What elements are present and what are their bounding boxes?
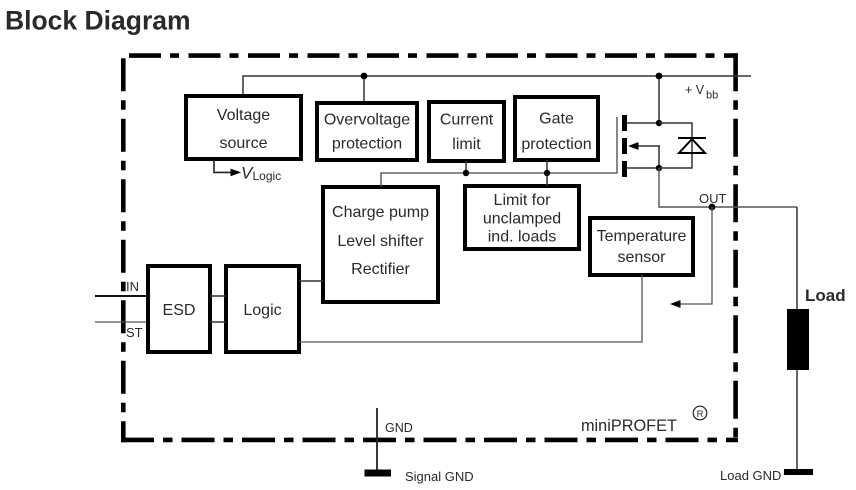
svg-text:protection: protection bbox=[332, 136, 402, 153]
wire IN input bbox=[95, 295, 146, 297]
svg-text:IN: IN bbox=[126, 279, 139, 294]
svg-text:ind. loads: ind. loads bbox=[488, 229, 557, 246]
node OUT junction bbox=[709, 204, 716, 211]
svg-text:Overvoltage: Overvoltage bbox=[324, 112, 410, 129]
svg-text:GND: GND bbox=[385, 421, 413, 435]
label registered trademark bbox=[693, 406, 707, 420]
wire source to OUT bbox=[659, 168, 797, 207]
svg-text:+ V: + V bbox=[685, 83, 705, 97]
wire drain branch bbox=[658, 76, 660, 123]
transistor power MOSFET gate electrode bbox=[616, 117, 618, 174]
svg-text:Logic: Logic bbox=[253, 169, 282, 183]
wire Logic to charge pump bbox=[299, 280, 323, 282]
box Voltage source bbox=[186, 96, 301, 159]
IC boundary dash-dot border bbox=[121, 53, 738, 442]
svg-text:Load: Load bbox=[805, 286, 846, 305]
svg-text:sensor: sensor bbox=[617, 249, 666, 266]
ground Load GND symbol bbox=[784, 469, 813, 475]
wire gate drive line bbox=[381, 173, 617, 187]
wire ST input bbox=[95, 321, 146, 323]
box Gate protection bbox=[515, 97, 598, 160]
svg-text:Gate: Gate bbox=[539, 111, 574, 128]
svg-text:OUT: OUT bbox=[699, 191, 727, 206]
box Limit for unclamped ind. loads bbox=[465, 186, 579, 249]
svg-text:source: source bbox=[219, 135, 267, 152]
node rail-drain junction bbox=[656, 73, 663, 80]
box Temperature sensor bbox=[590, 218, 693, 275]
svg-text:protection: protection bbox=[521, 136, 591, 153]
svg-text:miniPROFET: miniPROFET bbox=[581, 417, 677, 435]
ground Signal GND symbol bbox=[365, 470, 392, 477]
svg-text:Logic: Logic bbox=[243, 302, 281, 319]
node gate protection junction bbox=[544, 170, 550, 176]
node current limit junction bbox=[463, 170, 469, 176]
wire current limit stub bbox=[465, 161, 467, 173]
wire diode branch bbox=[659, 123, 692, 168]
svg-text:Current: Current bbox=[440, 112, 494, 129]
svg-text:Temperature: Temperature bbox=[597, 228, 687, 245]
diode body diode bbox=[678, 137, 706, 139]
svg-text:Load GND: Load GND bbox=[720, 468, 781, 483]
wire source stub bbox=[627, 167, 659, 169]
wire load to ground bbox=[796, 370, 798, 470]
svg-text:Limit for: Limit for bbox=[494, 192, 552, 209]
wire overvoltage stub bbox=[363, 76, 365, 101]
wire top supply rail bbox=[243, 76, 751, 95]
node rail-overvoltage junction bbox=[361, 73, 368, 80]
box Overvoltage protection bbox=[317, 103, 417, 160]
node drain junction bbox=[656, 120, 662, 126]
transistor channel bars bbox=[622, 115, 627, 177]
svg-text:Voltage: Voltage bbox=[217, 107, 270, 124]
node source junction bbox=[656, 165, 662, 171]
svg-text:limit: limit bbox=[452, 136, 481, 153]
box ESD bbox=[148, 266, 210, 352]
wire bulk connection with arrow bbox=[636, 145, 660, 147]
box Charge pump / Level shifter / Rectifier bbox=[323, 187, 438, 302]
wire ESD-Logic upper bbox=[210, 295, 226, 297]
svg-text:ESD: ESD bbox=[163, 302, 196, 319]
svg-text:Block Diagram: Block Diagram bbox=[5, 6, 191, 36]
wire load branch bbox=[796, 207, 798, 309]
box Logic bbox=[226, 266, 299, 352]
wire ESD-Logic lower bbox=[210, 321, 226, 323]
wire temperature sensor feedback to logic bbox=[299, 275, 642, 342]
svg-text:bb: bb bbox=[706, 90, 718, 102]
svg-text:unclamped: unclamped bbox=[483, 211, 561, 228]
wire GND pin bbox=[376, 408, 378, 472]
svg-text:Charge pump: Charge pump bbox=[332, 204, 429, 221]
box Current limit bbox=[429, 102, 504, 161]
svg-text:Level shifter: Level shifter bbox=[337, 233, 424, 250]
svg-text:ST: ST bbox=[126, 325, 143, 340]
resistor Load (filled) bbox=[787, 309, 809, 370]
svg-text:R: R bbox=[697, 409, 704, 420]
wire drain stub bbox=[627, 122, 659, 124]
svg-text:Rectifier: Rectifier bbox=[351, 261, 410, 278]
svg-text:Signal GND: Signal GND bbox=[405, 469, 474, 484]
wire V Logic arrow bbox=[214, 160, 233, 172]
wire OUT sense arrow to temperature sensor bbox=[676, 207, 712, 304]
wire gate protection to limit box bbox=[546, 160, 548, 186]
